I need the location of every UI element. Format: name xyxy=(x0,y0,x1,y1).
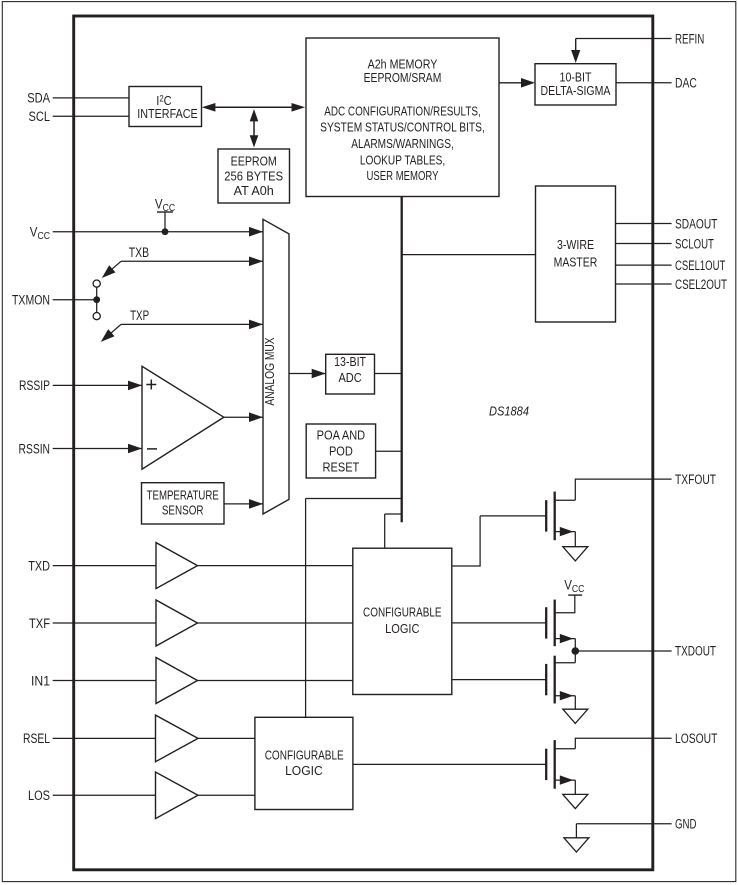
svg-text:256 BYTES: 256 BYTES xyxy=(224,168,283,183)
svg-text:AT A0h: AT A0h xyxy=(234,183,274,198)
svg-text:SCLOUT: SCLOUT xyxy=(675,236,714,251)
svg-text:RSSIP: RSSIP xyxy=(19,378,50,393)
svg-text:ALARMS/WARNINGS,: ALARMS/WARNINGS, xyxy=(351,136,454,151)
svg-text:POD: POD xyxy=(329,444,353,459)
svg-text:TXB: TXB xyxy=(129,245,149,260)
svg-text:TXP: TXP xyxy=(130,308,149,323)
svg-text:TXFOUT: TXFOUT xyxy=(675,472,716,487)
svg-text:RSSIN: RSSIN xyxy=(19,441,51,456)
svg-text:EEPROM/SRAM: EEPROM/SRAM xyxy=(364,70,442,85)
svg-text:ADC: ADC xyxy=(338,370,361,385)
svg-text:LOOKUP TABLES,: LOOKUP TABLES, xyxy=(360,152,445,167)
svg-text:ADC CONFIGURATION/RESULTS,: ADC CONFIGURATION/RESULTS, xyxy=(324,103,481,118)
svg-text:RSEL: RSEL xyxy=(23,731,50,746)
svg-text:IN1: IN1 xyxy=(31,673,50,688)
svg-text:TXD: TXD xyxy=(28,558,50,573)
svg-text:EEPROM: EEPROM xyxy=(231,153,277,168)
svg-text:CSEL2OUT: CSEL2OUT xyxy=(675,277,727,292)
svg-text:INTERFACE: INTERFACE xyxy=(137,106,198,121)
svg-text:POA AND: POA AND xyxy=(317,428,366,443)
svg-text:ANALOG MUX: ANALOG MUX xyxy=(262,337,277,405)
svg-text:USER MEMORY: USER MEMORY xyxy=(367,168,439,183)
svg-text:SDA: SDA xyxy=(27,91,50,106)
svg-text:GND: GND xyxy=(675,817,697,832)
svg-text:V: V xyxy=(564,577,572,592)
svg-text:REFIN: REFIN xyxy=(675,31,704,46)
svg-text:RESET: RESET xyxy=(323,460,360,475)
svg-text:LOGIC: LOGIC xyxy=(285,763,323,778)
svg-text:CC: CC xyxy=(163,203,176,214)
svg-text:DAC: DAC xyxy=(675,76,697,91)
svg-text:LOSOUT: LOSOUT xyxy=(675,731,717,746)
svg-text:CONFIGURABLE: CONFIGURABLE xyxy=(363,605,442,620)
svg-text:TXMON: TXMON xyxy=(12,293,50,308)
svg-text:SENSOR: SENSOR xyxy=(162,503,204,518)
svg-text:LOGIC: LOGIC xyxy=(385,621,419,636)
svg-text:TXF: TXF xyxy=(29,616,50,631)
svg-text:DS1884: DS1884 xyxy=(489,404,529,419)
svg-text:DELTA-SIGMA: DELTA-SIGMA xyxy=(541,83,611,98)
svg-text:SDAOUT: SDAOUT xyxy=(675,216,717,231)
svg-text:MASTER: MASTER xyxy=(554,255,598,270)
svg-text:CC: CC xyxy=(572,584,585,595)
svg-text:CC: CC xyxy=(38,231,51,242)
svg-text:V: V xyxy=(30,224,38,239)
svg-text:V: V xyxy=(155,196,163,211)
svg-text:SYSTEM STATUS/CONTROL BITS,: SYSTEM STATUS/CONTROL BITS, xyxy=(320,120,485,135)
svg-text:TEMPERATURE: TEMPERATURE xyxy=(147,487,219,502)
svg-text:TXDOUT: TXDOUT xyxy=(675,644,716,659)
svg-text:SCL: SCL xyxy=(29,109,51,124)
svg-text:LOS: LOS xyxy=(28,788,50,803)
svg-text:CONFIGURABLE: CONFIGURABLE xyxy=(265,747,344,762)
svg-text:CSEL1OUT: CSEL1OUT xyxy=(675,258,725,273)
svg-text:3-WIRE: 3-WIRE xyxy=(557,237,594,252)
svg-text:13-BIT: 13-BIT xyxy=(334,354,366,369)
